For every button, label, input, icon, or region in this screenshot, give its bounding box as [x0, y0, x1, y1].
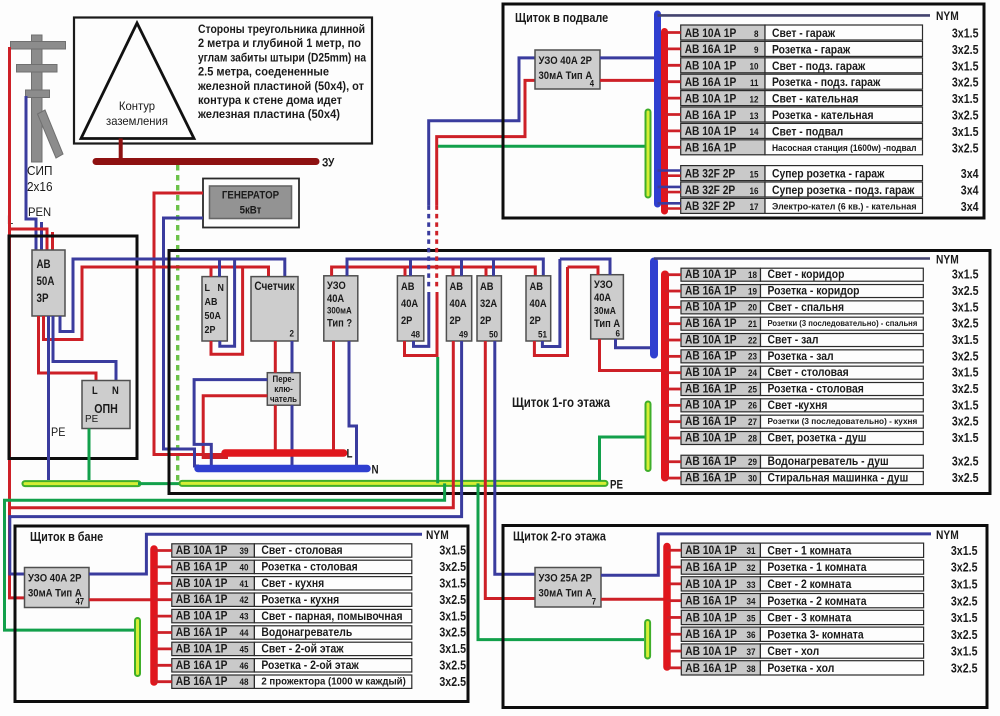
- svg-text:26: 26: [748, 401, 757, 412]
- breaker АВ 32А 2Р no.50: [477, 276, 501, 341]
- breaker row АВ 10А 1Р Свет -кухня: [681, 399, 761, 412]
- breaker row АВ 16А 1Р 2 прожектора (1000 w каждый): [172, 675, 255, 688]
- svg-text:L: L: [92, 385, 98, 397]
- svg-text:3х1.5: 3х1.5: [951, 645, 978, 659]
- svg-text:АВ 10А 1Р: АВ 10А 1Р: [176, 543, 228, 557]
- svg-text:АВ 10А 1Р: АВ 10А 1Р: [685, 59, 737, 73]
- svg-text:Свет - подвал: Свет - подвал: [772, 124, 843, 138]
- svg-text:44: 44: [240, 628, 250, 639]
- svg-text:L: L: [347, 449, 353, 461]
- RCD УЗО 40А 30мА Тип А no.6: [591, 275, 624, 339]
- wire PE link to switchboard PE bus: [138, 482, 182, 485]
- svg-text:СИП: СИП: [27, 164, 52, 178]
- svg-text:АВ: АВ: [450, 281, 464, 293]
- svg-text:3х1.5: 3х1.5: [952, 27, 979, 41]
- svg-text:29: 29: [748, 457, 757, 468]
- PE bar 2nd floor: [644, 623, 651, 657]
- svg-text:Свет - хол: Свет - хол: [767, 644, 819, 658]
- svg-text:УЗО 25А 2Р: УЗО 25А 2Р: [539, 573, 593, 585]
- svg-text:Свет - гараж: Свет - гараж: [772, 26, 835, 40]
- breaker row АВ 10А 1Р Свет - гараж: [681, 25, 765, 40]
- breaker row АВ 16А 1Р Розетка - подз. гараж: [681, 74, 765, 89]
- wire PE feed to basement panel: [438, 145, 648, 148]
- breaker row АВ 16А 1Р Розетка - столовая: [172, 560, 255, 573]
- svg-text:АВ 16А 1Р: АВ 16А 1Р: [176, 559, 228, 573]
- RCD УЗО 40А 2Р 30мА no.4: [535, 50, 600, 89]
- breaker row АВ 10А 1Р Свет - столовая: [681, 366, 761, 379]
- svg-text:РЕ: РЕ: [85, 413, 98, 425]
- svg-text:АВ 16А 1Р: АВ 16А 1Р: [176, 658, 228, 672]
- breaker row АВ 10А 1Р Свет - подз. гараж: [681, 58, 765, 73]
- svg-text:25: 25: [748, 384, 758, 395]
- svg-text:3х2.5: 3х2.5: [952, 349, 979, 363]
- N riser bus first floor: [650, 262, 658, 355]
- wire N through УЗО47 up to NYM: [89, 534, 422, 574]
- svg-text:3х2.5: 3х2.5: [439, 560, 466, 574]
- wire stubs from L riser to first floor rows: [665, 273, 681, 276]
- wire N output АВ 50А 2Р: [220, 259, 235, 346]
- svg-text:Розетка - 1 комната: Розетка - 1 комната: [767, 560, 866, 574]
- breaker row АВ 16А 1Р Розетки (3 последовательно) - кухня: [681, 415, 761, 428]
- svg-text:3Р: 3Р: [37, 293, 49, 305]
- breaker row АВ 10А 1Р Свет - 1 комната: [681, 543, 760, 557]
- switchboard box Щиток 1-го этажа: [169, 251, 990, 494]
- svg-text:3х1.5: 3х1.5: [952, 366, 979, 380]
- wire L feed to basement panel: [437, 80, 535, 205]
- svg-text:Розетки (3 последовательно) -: Розетки (3 последовательно) - кухня: [768, 416, 918, 426]
- dashed PE wire from earthing bar down: [176, 165, 179, 481]
- svg-text:18: 18: [748, 270, 757, 281]
- svg-text:Розетка - гараж: Розетка - гараж: [772, 42, 850, 56]
- svg-text:АВ 10А 1Р: АВ 10А 1Р: [685, 610, 737, 624]
- svg-text:УЗО: УЗО: [594, 279, 613, 291]
- svg-text:38: 38: [747, 664, 756, 675]
- svg-text:17: 17: [750, 202, 759, 213]
- svg-text:Розетки (3 последовательно) -: Розетки (3 последовательно) - спальня: [768, 318, 918, 328]
- svg-text:АВ 10А 1Р: АВ 10А 1Р: [176, 641, 228, 655]
- svg-text:3х1.5: 3х1.5: [951, 578, 978, 592]
- svg-text:Розетка - зал: Розетка - зал: [768, 349, 834, 363]
- wire L from УЗО 300мА to L bus: [332, 341, 335, 450]
- generator box: [203, 179, 299, 228]
- svg-text:Щиток 2-го этажа: Щиток 2-го этажа: [513, 529, 607, 544]
- svg-text:Электро-кател (6 кв.) - катель: Электро-кател (6 кв.) - кательная: [772, 201, 917, 212]
- svg-text:Свет - парная, помывочная: Свет - парная, помывочная: [261, 609, 402, 623]
- breaker row АВ 16А 1Р Розетка - столовая: [681, 383, 761, 396]
- wire PEN to PE bar: [47, 316, 50, 480]
- svg-text:АВ 32F 2Р: АВ 32F 2Р: [685, 183, 736, 197]
- wire N dashed backup feed: [427, 205, 430, 288]
- svg-text:2Р: 2Р: [450, 315, 461, 327]
- svg-text:15: 15: [750, 169, 760, 180]
- svg-text:12: 12: [750, 94, 759, 105]
- svg-text:3х2.5: 3х2.5: [952, 317, 979, 331]
- svg-text:АВ 16А 1Р: АВ 16А 1Р: [176, 592, 228, 606]
- svg-text:Водонагреватель - душ: Водонагреватель - душ: [768, 454, 889, 468]
- svg-text:Свет - подз. гараж: Свет - подз. гараж: [772, 59, 865, 73]
- svg-text:3х1.5: 3х1.5: [952, 333, 979, 347]
- svg-text:Свет -кухня: Свет -кухня: [768, 398, 828, 412]
- wire stubs from L riser to bath rows: [154, 549, 172, 552]
- wire ОПН РЕ to PE bar: [88, 429, 91, 481]
- breaker АВ 50А 2Р with L N: [202, 277, 227, 341]
- breaker row АВ 16А 1Р Водонагреватель - душ: [681, 455, 761, 468]
- svg-text:11: 11: [750, 78, 759, 89]
- svg-text:Свет - 3 комната: Свет - 3 комната: [767, 611, 851, 625]
- svg-text:3х1.5: 3х1.5: [952, 431, 979, 445]
- svg-text:АВ 16А 1Р: АВ 16А 1Р: [176, 625, 228, 639]
- svg-text:АВ 16А 1Р: АВ 16А 1Р: [685, 42, 737, 56]
- svg-text:51: 51: [538, 330, 548, 341]
- svg-text:8: 8: [754, 29, 759, 40]
- breaker row АВ 16А 1Р Розетка - коридор: [681, 285, 761, 298]
- wire stubs from L riser to basement rows: [665, 31, 681, 34]
- svg-text:3х1.5: 3х1.5: [952, 59, 979, 73]
- svg-text:Водонагреватель: Водонагреватель: [261, 625, 352, 639]
- svg-text:NYM: NYM: [936, 9, 959, 23]
- breaker row АВ 10А 1Р Свет - подвал: [681, 123, 765, 138]
- svg-text:30мА Тип А: 30мА Тип А: [28, 588, 82, 600]
- wire L drop to АВ 50А 2Р: [210, 267, 213, 277]
- svg-text:Розетка - кательная: Розетка - кательная: [772, 108, 874, 122]
- svg-text:Пере-: Пере-: [273, 374, 295, 384]
- svg-text:Счетчик: Счетчик: [254, 279, 294, 293]
- svg-text:3х2.5: 3х2.5: [952, 109, 979, 123]
- NYM line first floor: [654, 257, 930, 260]
- wire N bus segment to АВ51: [347, 259, 543, 276]
- svg-text:3х1.5: 3х1.5: [952, 300, 979, 314]
- svg-text:УЗО 40А 2Р: УЗО 40А 2Р: [28, 573, 82, 585]
- svg-text:21: 21: [748, 319, 758, 330]
- wire N feed to basement panel: [429, 58, 535, 206]
- svg-text:43: 43: [240, 612, 249, 623]
- wire L bus segment to АВ51: [332, 267, 536, 276]
- svg-text:Свет - кухня: Свет - кухня: [261, 576, 324, 590]
- breaker row АВ 16А 1Р Водонагреватель: [172, 626, 255, 639]
- svg-text:АВ 10А 1Р: АВ 10А 1Р: [685, 91, 737, 105]
- RCD УЗО 25А 2Р 30мА no.7: [535, 568, 601, 608]
- svg-text:40А: 40А: [594, 292, 611, 304]
- svg-text:углам забиты штыри (D25mm) на: углам забиты штыри (D25mm) на: [198, 50, 366, 64]
- wire stubs from L riser to 2nd floor rows: [667, 549, 681, 552]
- surge arrester ОПН: [82, 381, 130, 429]
- svg-text:3х1.5: 3х1.5: [439, 577, 466, 591]
- svg-text:3х2.5: 3х2.5: [952, 382, 979, 396]
- svg-text:3х1.5: 3х1.5: [952, 268, 979, 282]
- svg-text:NYM: NYM: [426, 528, 449, 542]
- svg-text:АВ 16А 1Р: АВ 16А 1Р: [685, 316, 737, 330]
- RCD УЗО 40А 300мА: [324, 276, 358, 341]
- svg-text:6: 6: [616, 329, 621, 340]
- svg-text:Тип ?: Тип ?: [327, 318, 352, 330]
- svg-text:2Р: 2Р: [480, 315, 491, 327]
- svg-text:2Р: 2Р: [401, 315, 412, 327]
- svg-text:14: 14: [750, 127, 760, 138]
- svg-text:АВ 16А 1Р: АВ 16А 1Р: [685, 414, 737, 428]
- wire L branch into АВ 50А 3Р: [10, 229, 48, 250]
- svg-text:300мА: 300мА: [327, 306, 352, 316]
- wire N from АВ 50А 3Р to ОПН: [53, 316, 116, 381]
- wire L phase from pole down left edge to bath panel: [10, 47, 25, 598]
- svg-text:3х1.5: 3х1.5: [952, 92, 979, 106]
- svg-text:31: 31: [747, 546, 757, 557]
- svg-text:АВ: АВ: [37, 259, 51, 271]
- breaker row АВ 10А 1Р Свет - хол: [681, 644, 760, 658]
- svg-text:5кВт: 5кВт: [240, 205, 262, 217]
- breaker row АВ 16А 1Р Розетка - 1 комната: [681, 560, 760, 574]
- svg-text:Свет - 2-ой этаж: Свет - 2-ой этаж: [261, 642, 344, 656]
- svg-text:АВ 16А 1Р: АВ 16А 1Р: [176, 674, 228, 688]
- svg-text:АВ 16А 1Р: АВ 16А 1Р: [685, 594, 737, 608]
- svg-text:50А: 50А: [205, 310, 222, 322]
- breaker row АВ 10А 1Р Свет - зал: [681, 334, 761, 347]
- wire PE to bath panel: [5, 483, 445, 630]
- svg-text:16: 16: [750, 186, 759, 197]
- L riser bus bath: [150, 549, 158, 682]
- svg-text:30мА Тип А: 30мА Тип А: [539, 70, 593, 82]
- svg-text:АВ 10А 1Р: АВ 10А 1Р: [685, 644, 737, 658]
- svg-text:N: N: [218, 282, 224, 294]
- wire N drop to АВ 50А 2Р: [218, 259, 221, 277]
- svg-text:3х1.5: 3х1.5: [952, 125, 979, 139]
- svg-text:30мА: 30мА: [594, 306, 616, 317]
- svg-text:железная пластина (50х4): железная пластина (50х4): [197, 107, 340, 121]
- breaker row АВ 16А 1Р Розетка - хол: [681, 661, 760, 675]
- svg-text:3х2.5: 3х2.5: [951, 594, 978, 608]
- wire L output АВ50 to 2nd floor panel: [485, 341, 535, 599]
- L bus bar: [225, 449, 344, 457]
- svg-text:АВ 10А 1Р: АВ 10А 1Р: [685, 26, 737, 40]
- svg-text:Розетка - коридор: Розетка - коридор: [768, 284, 860, 298]
- breaker АВ 40А 2Р no.51: [526, 276, 551, 341]
- svg-text:3х2.5: 3х2.5: [952, 415, 979, 429]
- wire N from Переключатель to N bus: [291, 405, 294, 465]
- N riser bus basement: [654, 14, 661, 204]
- L riser bus basement: [661, 32, 668, 212]
- wire L from АВ 50А 3Р to switchboard: [44, 267, 269, 340]
- svg-text:30мА Тип А: 30мА Тип А: [539, 588, 593, 600]
- breaker row АВ 32F 2Р Электро-кател (6 кв.) - кательная: [681, 198, 765, 213]
- svg-text:Щиток в подвале: Щиток в подвале: [515, 10, 608, 25]
- L riser bus first floor: [661, 275, 669, 478]
- wire L from Переключатель to L bus: [274, 405, 277, 450]
- svg-text:3х2.5: 3х2.5: [952, 284, 979, 298]
- wire PEN from pole: [26, 96, 36, 250]
- wire PEN second conductor into АВ 50А 3Р: [40, 222, 43, 250]
- svg-text:48: 48: [411, 330, 420, 341]
- svg-text:АВ 10А 1Р: АВ 10А 1Р: [685, 332, 737, 346]
- svg-text:АВ 16А 1Р: АВ 16А 1Р: [685, 283, 737, 297]
- svg-text:АВ 10А 1Р: АВ 10А 1Р: [685, 430, 737, 444]
- svg-text:3х2.5: 3х2.5: [952, 141, 979, 155]
- L riser bus 2nd floor: [663, 547, 671, 668]
- wire N from N bus to Переключатель: [194, 380, 267, 465]
- svg-text:40А: 40А: [450, 298, 467, 310]
- PE bar basement: [645, 112, 652, 195]
- wire L УЗО7 to L riser: [601, 598, 665, 601]
- svg-text:41: 41: [240, 579, 250, 590]
- wire L from L bus to Переключатель: [203, 396, 267, 458]
- PE bar first floor riser: [645, 404, 652, 469]
- svg-text:3х2.5: 3х2.5: [951, 561, 978, 575]
- svg-text:24: 24: [748, 368, 758, 379]
- svg-text:АВ 10А 1Р: АВ 10А 1Р: [685, 543, 737, 557]
- svg-text:Розетка - кухня: Розетка - кухня: [261, 592, 339, 606]
- svg-text:АВ 16А 1Р: АВ 16А 1Р: [685, 560, 737, 574]
- svg-text:Щиток в бане: Щиток в бане: [30, 529, 103, 544]
- svg-text:35: 35: [747, 613, 757, 624]
- svg-text:9: 9: [754, 45, 759, 56]
- svg-text:ГЕНЕРАТОР: ГЕНЕРАТОР: [222, 190, 280, 202]
- svg-text:Свет - зал: Свет - зал: [768, 333, 819, 347]
- svg-text:Стиральная машинка - душ: Стиральная машинка - душ: [768, 471, 909, 485]
- svg-text:УЗО 40А 2Р: УЗО 40А 2Р: [539, 55, 593, 67]
- wire N output АВ50 to 2nd floor panel: [495, 341, 535, 574]
- input enclosure box: [9, 236, 137, 459]
- svg-text:19: 19: [748, 286, 757, 297]
- svg-text:30: 30: [748, 473, 757, 484]
- svg-text:40: 40: [240, 562, 249, 573]
- svg-text:45: 45: [240, 644, 250, 655]
- svg-text:50: 50: [489, 330, 498, 341]
- svg-text:3х2.5: 3х2.5: [952, 471, 979, 485]
- svg-text:АВ 16А 1Р: АВ 16А 1Р: [685, 349, 737, 363]
- wire generator N: [164, 218, 204, 466]
- svg-text:АВ: АВ: [530, 281, 544, 293]
- svg-text:АВ 16А 1Р: АВ 16А 1Р: [685, 661, 737, 675]
- svg-text:NYM: NYM: [936, 253, 959, 267]
- svg-text:33: 33: [747, 580, 756, 591]
- svg-text:2.5 метра, соедененные: 2.5 метра, соедененные: [198, 65, 329, 79]
- svg-text:10: 10: [750, 62, 759, 73]
- breaker row АВ 10А 1Р Свет - кательная: [681, 91, 765, 106]
- svg-text:Контур: Контур: [119, 99, 155, 113]
- breaker row АВ 16А 1Р Розетка - зал: [681, 350, 761, 363]
- grounding description box: [74, 18, 372, 144]
- svg-text:3х2.5: 3х2.5: [951, 628, 978, 642]
- wire N output АВ49 to bath panel: [10, 341, 462, 574]
- changeover switch Переключатель: [267, 373, 300, 406]
- svg-text:3х1.5: 3х1.5: [439, 609, 466, 623]
- svg-text:L: L: [205, 282, 211, 294]
- wire L second conductor into АВ 50А 3Р: [51, 232, 54, 250]
- svg-text:АВ 16А 1Р: АВ 16А 1Р: [685, 108, 737, 122]
- svg-text:46: 46: [240, 661, 249, 672]
- svg-text:Свет, розетка - душ: Свет, розетка - душ: [768, 431, 867, 445]
- svg-text:40А: 40А: [327, 293, 344, 305]
- svg-text:Свет - 1 комната: Свет - 1 комната: [767, 543, 851, 557]
- svg-text:Розетка - 2 комната: Розетка - 2 комната: [767, 594, 866, 608]
- wire L from АВ 50А 3Р to ОПН: [39, 316, 97, 381]
- svg-text:47: 47: [76, 597, 85, 607]
- breaker row АВ 16А 1Р Розетка 3- комната: [681, 627, 760, 641]
- svg-text:39: 39: [240, 546, 249, 557]
- svg-text:3х4: 3х4: [961, 184, 979, 198]
- svg-text:3х1.5: 3х1.5: [439, 642, 466, 656]
- wire from triangle to earthing bar: [119, 139, 123, 159]
- svg-text:Розетка 3- комната: Розетка 3- комната: [767, 627, 863, 641]
- svg-text:АВ 10А 1Р: АВ 10А 1Р: [685, 124, 737, 138]
- N bus bar: [198, 465, 367, 473]
- breaker row АВ 16А 1Р Розетка - кухня: [172, 593, 255, 606]
- svg-text:АВ 10А 1Р: АВ 10А 1Р: [685, 300, 737, 314]
- svg-text:АВ 32F 2Р: АВ 32F 2Р: [685, 166, 736, 180]
- svg-text:3х2.5: 3х2.5: [952, 76, 979, 90]
- svg-text:Розетка - хол: Розетка - хол: [767, 661, 834, 675]
- breaker row АВ 16А 1Р Розетка - гараж: [681, 41, 765, 56]
- svg-text:3х2.5: 3х2.5: [439, 593, 466, 607]
- svg-text:АВ: АВ: [401, 281, 415, 293]
- svg-text:железной пластиной (50х4), от: железной пластиной (50х4), от: [197, 79, 364, 93]
- bath panel box: [15, 526, 468, 702]
- wire PE to floor PE riser: [600, 437, 647, 481]
- wire N from УЗО no.6 to N riser: [616, 339, 652, 348]
- svg-text:3х2.5: 3х2.5: [439, 659, 466, 673]
- svg-text:АВ 10А 1Р: АВ 10А 1Р: [685, 267, 737, 281]
- svg-text:36: 36: [747, 630, 756, 641]
- svg-text:2 прожектора (1000 w каждый): 2 прожектора (1000 w каждый): [261, 676, 405, 687]
- svg-text:3х2.5: 3х2.5: [439, 675, 466, 689]
- svg-text:Свет - коридор: Свет - коридор: [768, 267, 845, 281]
- breaker row АВ 10А 1Р Свет - столовая: [172, 544, 255, 557]
- svg-text:АВ 16А 1Р: АВ 16А 1Р: [685, 75, 737, 89]
- svg-text:АВ 10А 1Р: АВ 10А 1Р: [685, 365, 737, 379]
- wire N from Счетчик to Переключатель: [291, 341, 294, 373]
- breaker row АВ 32F 2Р Супер розетка - подз. гараж: [681, 182, 765, 197]
- breaker row АВ 10А 1Р Свет - спальня: [681, 301, 761, 314]
- svg-text:Свет - кательная: Свет - кательная: [772, 92, 858, 106]
- svg-text:PEN: PEN: [28, 205, 51, 219]
- wire L from Счетчик to Переключатель: [274, 341, 277, 373]
- basement panel box: [503, 4, 984, 218]
- wire N from УЗО 300мА to N bus: [349, 341, 357, 465]
- svg-text:УЗО: УЗО: [327, 280, 346, 292]
- svg-text:48: 48: [240, 677, 249, 688]
- svg-text:34: 34: [747, 597, 757, 608]
- electric meter Счетчик: [251, 277, 298, 341]
- wire generator L: [154, 193, 225, 455]
- PE bar of input enclosure: [25, 480, 138, 487]
- wire L УЗО47 to L riser: [89, 598, 152, 601]
- svg-text:РЕ: РЕ: [51, 427, 66, 439]
- wire L dashed backup feed: [435, 205, 438, 288]
- svg-text:АВ: АВ: [205, 296, 218, 308]
- svg-text:АВ: АВ: [480, 281, 494, 293]
- svg-text:Свет - 2 комната: Свет - 2 комната: [767, 577, 851, 591]
- svg-text:3х1.5: 3х1.5: [439, 544, 466, 558]
- svg-text:Щиток 1-го этажа: Щиток 1-го этажа: [512, 395, 610, 410]
- PE bus bar: [182, 480, 605, 487]
- breaker row АВ 10А 1Р Свет - 2-ой этаж: [172, 642, 255, 655]
- svg-text:N: N: [372, 465, 379, 477]
- wire N from УЗО7 up to NYM: [601, 534, 931, 575]
- earthing bar ЗУ: [96, 158, 316, 165]
- svg-text:АВ 16А 1Р: АВ 16А 1Р: [685, 454, 737, 468]
- svg-text:28: 28: [748, 433, 757, 444]
- svg-text:N: N: [112, 385, 119, 397]
- svg-text:Супер розетка - подз. гараж: Супер розетка - подз. гараж: [772, 183, 915, 197]
- svg-text:27: 27: [748, 417, 757, 428]
- svg-text:АВ 10А 1Р: АВ 10А 1Р: [685, 577, 737, 591]
- RCD УЗО 40А 2Р 30мА no.47: [25, 568, 90, 608]
- svg-text:Розетка - столовая: Розетка - столовая: [768, 382, 864, 396]
- wire L output АВ49 to bath panel: [10, 341, 454, 508]
- svg-text:2х16: 2х16: [27, 180, 53, 194]
- svg-text:4: 4: [590, 79, 594, 89]
- svg-text:Супер розетка - гараж: Супер розетка - гараж: [772, 167, 885, 181]
- 2nd floor panel box: [503, 526, 987, 708]
- svg-text:20: 20: [748, 303, 757, 314]
